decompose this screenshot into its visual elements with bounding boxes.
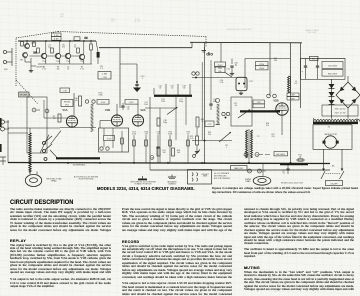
wire V2B cathode down [281,115,283,135]
boxed label R50 [215,67,232,78]
svg-text:500k: 500k [168,133,172,135]
svg-text:BUTTON PRESSED: BUTTON PRESSED [214,178,231,180]
voltage box record level [104,136,115,141]
svg-text:270k: 270k [98,95,102,97]
wire head feed [29,128,31,133]
ground input stage [30,69,32,71]
wire drop x150 [149,97,151,163]
capacitor C45 [316,58,319,79]
svg-text:10k: 10k [57,69,60,71]
psu top wire [301,57,346,59]
svg-text:470k: 470k [132,133,136,135]
heavy chassis stub right [280,163,308,165]
wire V2A anode [137,104,139,115]
metal rectifier W2 stack [329,79,335,118]
capacitor C47 [282,165,290,175]
switch link diagonals [40,135,49,153]
node key circle 6 [32,108,40,112]
voltage boxes psu [322,62,343,77]
wire left connection row [8,127,60,129]
svg-text:4·7k: 4·7k [80,69,84,71]
mains transformer T1 core [313,122,358,125]
svg-text:1M: 1M [75,100,78,102]
transistor TR6 [79,41,84,71]
record-play head symbol [25,168,41,187]
chassis rail secondary [150,169,330,171]
svg-text:R50: R50 [218,68,223,70]
triode V1B [111,115,122,126]
svg-text:8µ: 8µ [235,65,238,67]
svg-text:TR4: TR4 [56,61,60,63]
svg-text:TR6: TR6 [80,61,84,63]
wire V1B anode [116,104,118,115]
svg-text:SKT: SKT [111,21,116,23]
motor enclosure box [313,125,352,150]
svg-text:D4: D4 [245,155,247,157]
wire drop x221 top [220,43,222,62]
erase coil L4 winding [29,133,31,172]
wire drop x160 [159,108,161,163]
svg-text:MIC: MIC [4,69,8,71]
wire TR2 emitter to ground bus [30,58,32,69]
svg-text:VIEW: VIEW [203,176,208,178]
svg-text:HEAD: HEAD [246,180,252,183]
node keys near volume [85,98,95,104]
svg-text:S6: S6 [332,166,335,168]
fuse FS1 [296,155,305,162]
wire mid horizontals [192,140,232,142]
voltage box V1B [97,100,109,105]
svg-text:V2A: V2A [140,108,145,112]
key node 5A [150,156,154,160]
svg-text:C23: C23 [249,81,254,83]
junction mid [204,140,206,142]
keyed node D4 [244,153,248,157]
svg-text:RF UNIT: RF UNIT [20,95,28,97]
resistor R18 chain [145,135,147,163]
voltage box V2B anode [256,62,269,71]
svg-text:+: + [302,71,304,74]
svg-text:·01: ·01 [282,173,285,175]
tape motor M [323,136,339,148]
svg-text:CHASSIS: CHASSIS [168,182,177,185]
resistor R18 [172,148,181,156]
svg-text:D4: D4 [248,171,250,173]
wire mute link [31,65,36,67]
svg-text:MODELS 4314, 6314 ONLY: MODELS 4314, 6314 ONLY [281,183,304,185]
capacitor C44 [302,58,308,79]
svg-text:1M: 1M [53,118,56,120]
junction dots rail [29,162,31,164]
wire cathode rail V1A [60,127,96,129]
box oscillator network [231,97,252,126]
resistor R15 [157,118,167,126]
boxed label mic jack [274,152,288,156]
resistor R22 [190,136,199,145]
wire drop x270 [269,43,271,96]
wire HT rail [190,41,302,44]
edge mark strip [0,118,2,127]
voltage box 250V node [215,62,226,67]
svg-text:T2: T2 [257,136,260,138]
wire V1A grid left [44,117,68,119]
svg-text:1·4V: 1·4V [62,91,67,93]
legend contact detail box [188,170,212,185]
svg-text:47k: 47k [62,47,65,49]
svg-text:4·7k: 4·7k [190,138,194,140]
svg-text:C22: C22 [208,124,213,126]
screened RF unit dashed border [16,32,206,105]
ground below C23 [240,92,242,94]
node key circle 2 [45,109,49,113]
oscillator transformer T2 [246,129,253,159]
oscillator coil L5 [288,76,291,93]
svg-text:MIC JACK: MIC JACK [277,153,286,156]
volume control boxed label R8 [61,100,73,107]
node key circles board [100,147,109,150]
svg-text:·01: ·01 [159,88,162,90]
svg-text:1·5V: 1·5V [107,138,112,140]
board outline record level [99,128,129,152]
diagonal into screened bar [50,150,57,158]
svg-text:TR1: TR1 [31,43,36,45]
wire left drop [7,120,9,163]
svg-text:HEAD: HEAD [51,180,57,183]
svg-text:V2B: V2B [273,99,278,103]
heavy bus oscillator [240,110,280,112]
voltage box V2B screen [287,93,299,100]
svg-text:·04: ·04 [234,105,237,107]
svg-text:2·2k: 2·2k [42,69,46,71]
svg-text:47k: 47k [145,133,148,135]
svg-text:ON-OFF: ON-OFF [330,183,338,185]
capacitor C13 to chassis [135,64,138,86]
resistor R21 [196,117,204,127]
wire motor to switch legs [323,149,325,168]
wire top rail input section [18,40,96,42]
resistor board extra [121,138,124,144]
electrolytic can C23 [236,77,254,90]
voltage box V1A anode [60,88,70,93]
svg-text:270k: 270k [161,101,165,103]
svg-text:250V: 250V [259,68,264,70]
svg-text:·05: ·05 [67,69,70,71]
svg-text:+: + [89,98,91,100]
junction dots input rail [26,40,27,41]
bottom bus input section [38,63,92,65]
edge jack upper [1,120,10,131]
resistor R17 [157,148,166,156]
wire base coupling row [29,55,41,57]
svg-text:dio: dio [206,51,213,56]
wire osc rail [245,58,290,60]
resistor R20 chain [187,135,189,163]
wire left branch [8,132,28,134]
wire drop x120 [119,48,121,108]
junction dot C13 [136,81,138,83]
wire HT feed verticals [290,43,292,164]
voltage box V2A [125,100,138,105]
capacitor C1 [33,51,36,53]
switch S1a contacts [43,136,53,161]
wire drop x197 [196,128,198,136]
legend switch symbol [138,176,147,180]
psu sub box [301,58,346,79]
svg-text:·1: ·1 [142,78,145,80]
chassis wedge below C13 [133,88,141,93]
legend note text [214,172,231,180]
transistor TR3 [41,41,46,71]
switch S5a arm [219,132,231,142]
triode V1A [66,116,77,127]
svg-text:250p: 250p [179,101,183,103]
capacitor C18 chain [156,131,160,163]
svg-text:1M: 1M [208,134,211,136]
svg-text:V1A: V1A [62,108,67,112]
ground x197 [196,150,198,152]
board tag box SW [98,72,111,80]
capacitor C20 symbol [230,66,234,75]
legend keyed node 7D example [258,169,267,173]
svg-text:10k: 10k [177,152,180,154]
svg-text:R56 C52 2k2: R56 C52 2k2 [334,108,345,110]
resistor R5 grid [53,114,61,122]
svg-text:TR2: TR2 [20,60,25,62]
wire mid rail [99,47,192,49]
svg-text:·02: ·02 [171,88,174,90]
bridge rectifier W1 [336,76,360,119]
svg-text:T1: T1 [328,127,331,129]
triode V2B [276,103,288,115]
wire top bus legend [149,164,151,171]
junction dot can feed [195,77,197,79]
wire pair long drop x202b [201,62,203,140]
junction legend rail [204,162,206,164]
svg-text:250V .01 1W: 250V .01 1W [335,113,346,115]
wire board verticals extra [103,128,105,135]
svg-text:C50 350V: C50 350V [328,66,338,68]
svg-text:V1B: V1B [105,108,110,112]
resistor R17 chain [133,135,135,163]
transistor TR2 [20,52,28,61]
svg-text:1k: 1k [202,121,204,123]
switch S4 contact [193,150,200,158]
screened band to indicator [216,99,221,125]
label RF UNIT [19,92,30,97]
svg-text:2: 2 [47,111,48,113]
svg-text:1M: 1M [163,152,166,154]
key node circles near V2B [267,92,277,98]
component box C22 [205,121,214,127]
edge mark strip lower [0,144,2,152]
svg-text:18k: 18k [274,60,277,62]
svg-text:TR5: TR5 [66,61,70,63]
wire drop x176 [175,97,177,140]
resistor R19 tone control [169,135,171,163]
voltage box input stage readings [52,33,62,41]
svg-text:SEC: SEC [60,16,65,18]
wire long drop x204 [204,43,206,163]
svg-text:IN UP POSITION: IN UP POSITION [79,179,94,181]
svg-text:IN EARLY POSITION: IN EARLY POSITION [135,182,152,185]
svg-text:C31: C31 [227,69,230,71]
resistor R9 dropper [90,44,93,50]
transistor TR1 [25,43,36,49]
svg-text:6: 6 [34,110,35,112]
capacitor bus C14-C16 heavy bar [154,84,192,97]
keyed circles OD [192,72,199,75]
svg-text:·04: ·04 [183,88,186,90]
wire R9 leads [90,41,92,44]
wire drop x245 [244,59,246,89]
wire grid V1B from volume control [100,120,111,122]
resistor R4 [37,48,40,53]
wire TR1 collector [26,41,28,44]
svg-text:TAPE MOTOR: TAPE MOTOR [324,133,337,136]
boxed label bias osc [231,166,248,171]
svg-text:1 SW: 1 SW [102,74,107,76]
svg-text:25µ: 25µ [48,47,51,49]
svg-text:1·5V: 1·5V [101,102,106,104]
capacitor C21 [209,60,217,110]
capacitor C12 coupling [121,103,129,111]
chassis rail main [8,163,330,164]
wire erase feed from T2 [248,159,250,163]
legend erase head symbol [253,176,271,185]
switch S3a arm [167,107,178,115]
transistor TR5 [65,41,70,71]
wire rail jog [191,42,193,47]
wire branch y64 [120,63,137,65]
capacitor C2 on rail [84,36,87,38]
svg-text:470: 470 [266,125,269,127]
wire can feed [192,77,236,79]
svg-text:·05: ·05 [157,133,160,135]
resistor R2 [33,42,36,47]
svg-text:250p: 250p [163,122,167,124]
pentode V2A [132,115,143,126]
mains transformer T1 winding [314,118,360,122]
resistor R1 [21,42,24,47]
svg-text:0·6V: 0·6V [54,39,59,41]
svg-text:R14: R14 [144,104,147,106]
wire V1A anode up [73,93,75,116]
wire keyed tail [265,154,270,156]
resistor R6 [51,48,54,53]
wire grid branch x44 [43,100,45,118]
transistor TR4 [55,41,60,71]
wire head column link [29,172,31,175]
keyed node 7D [255,153,263,157]
svg-text:(SCREENED): (SCREENED) [73,165,86,167]
svg-text:1·5: 1·5 [100,68,104,70]
svg-text:R55 290V: R55 290V [328,73,338,75]
svg-text:2 3B: 2 3B [102,77,107,79]
svg-text:MODELS 4314, 6314 ONLY: MODELS 4314, 6314 ONLY [227,29,253,31]
svg-text:220: 220 [272,136,275,138]
svg-text:PRI 240V: PRI 240V [308,32,317,34]
switch unit outline box [27,97,47,153]
switch S6 ganged [321,166,344,180]
svg-text:·01: ·01 [74,47,77,49]
svg-text:·1: ·1 [226,147,228,149]
wire branch y108 [145,107,176,109]
resistor R7 [77,48,80,53]
legend keyed node D4 example [248,169,252,173]
svg-text:+: + [271,92,273,94]
psu table box [322,105,358,116]
resistor R31 [310,56,319,60]
svg-text:·01: ·01 [127,109,130,111]
screened lead heavy bar [56,157,100,159]
screened connector to board [96,41,100,64]
wire bottom of coil to head [262,164,264,177]
svg-text:25k: 25k [218,71,221,73]
radio socket symbol [202,47,214,56]
svg-text:BIAS OSC: BIAS OSC [234,167,244,170]
legend chassis symbol [168,175,176,179]
microphone input jack J1 [3,48,12,71]
edge connector lower [0,157,6,165]
wire drop x232 to C20 [231,59,233,65]
svg-text:62V: 62V [130,102,134,104]
wire drop x186 [185,97,187,125]
svg-text:6·4: 6·4 [295,83,298,85]
svg-text:R8 1M: R8 1M [64,102,70,104]
keyed circles mid [222,112,230,118]
capacitor C26 boxes [253,100,265,108]
svg-text:2·2k: 2·2k [220,82,224,84]
screened band volume feed [91,104,94,105]
svg-text:500p: 500p [213,101,217,103]
resistor R10 [74,96,81,106]
svg-text:TR3: TR3 [42,61,46,63]
label on-off switch [326,181,343,186]
switch S3b arm [238,110,250,119]
svg-text:SL 3B: SL 3B [134,21,140,23]
resistor R3 on rail [74,37,80,41]
